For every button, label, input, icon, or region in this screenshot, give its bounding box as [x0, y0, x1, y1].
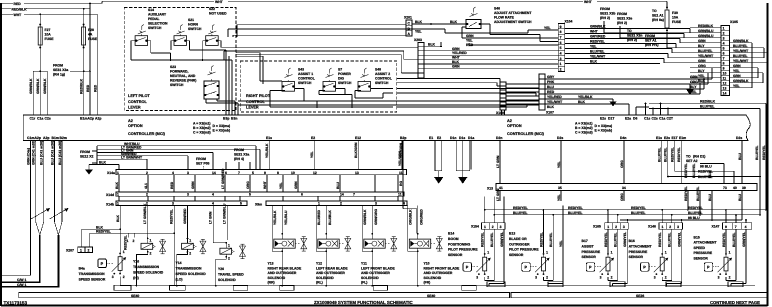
svg-text:YEL/BLU: YEL/BLU [284, 210, 288, 225]
svg-text:2: 2 [228, 256, 230, 260]
svg-text:11: 11 [399, 171, 403, 175]
sensor B15 attachment speed pressure [694, 209, 747, 286]
svg-text:3: 3 [677, 225, 679, 229]
wires left pilot switch tops to X201 [228, 25, 445, 37]
svg-text:YEL: YEL [415, 30, 422, 34]
svg-text:BLU: BLU [336, 181, 340, 189]
X9m right feed to FR solenoid [403, 209, 417, 234]
svg-text:RIGHT FRONT BLADE: RIGHT FRONT BLADE [424, 266, 461, 270]
svg-text:D4n: D4n [620, 136, 626, 140]
svg-text:Y14: Y14 [176, 261, 182, 265]
svg-text:SE7 P05: SE7 P05 [196, 162, 209, 166]
svg-text:D6: D6 [633, 117, 637, 121]
svg-text:SPEED SOLENOID: SPEED SOLENOID [133, 271, 164, 275]
RED/YEL sensor bus [485, 206, 767, 211]
svg-text:4: 4 [403, 202, 405, 206]
wire RED/BLK down [79, 78, 83, 94]
svg-text:ZX1009049 SYSTEM FUNCTIONAL SC: ZX1009049 SYSTEM FUNCTIONAL SCHEMATIC [314, 300, 413, 305]
svg-text:BLU/RED: BLU/RED [317, 209, 321, 225]
svg-text:SE40: SE40 [131, 294, 139, 298]
svg-text:11: 11 [723, 77, 727, 81]
wire B2p YEL/GRN down left of grounds [398, 141, 471, 170]
svg-text:SOLENOID: SOLENOID [361, 276, 379, 280]
svg-text:5: 5 [252, 171, 254, 175]
connector bar X13 [487, 184, 757, 191]
svg-text:RED/YEL: RED/YEL [124, 235, 128, 250]
svg-text:9: 9 [560, 25, 562, 29]
svg-text:6: 6 [225, 171, 227, 175]
svg-text:BLU/YEL: BLU/YEL [700, 105, 715, 109]
svg-text:E2s: E2s [664, 136, 670, 140]
svg-text:1: 1 [117, 202, 119, 206]
svg-text:X207: X207 [66, 249, 74, 253]
switch S7 power dig [323, 68, 352, 92]
svg-text:RED: RED [170, 181, 174, 189]
X105 left wires and labels [604, 21, 721, 83]
svg-text:E2: E2 [311, 136, 315, 140]
wires X14a to X14d drops with labels [115, 168, 398, 192]
svg-text:E1: E1 [429, 136, 433, 140]
svg-text:B16: B16 [629, 239, 635, 243]
svg-text:35: 35 [558, 186, 562, 190]
svg-text:GRN/BLK: GRN/BLK [733, 39, 749, 43]
svg-text:ORG: ORG [246, 181, 250, 189]
svg-text:4A: 4A [88, 33, 93, 37]
svg-text:PRESSURE: PRESSURE [694, 251, 713, 255]
svg-text:7: 7 [238, 171, 240, 175]
98 BLU wire [620, 216, 742, 221]
svg-text:(RR): (RR) [268, 281, 275, 285]
switch S43 assist 1 [282, 68, 315, 92]
svg-text:YEL/WHT: YEL/WHT [698, 54, 714, 58]
svg-text:RED/YEL: RED/YEL [684, 163, 688, 178]
svg-text:BLADE OR: BLADE OR [509, 237, 527, 241]
svg-text:BLK: BLK [547, 105, 555, 109]
svg-text:(RH 1g): (RH 1g) [53, 73, 65, 77]
svg-text:GRN: GRN [698, 39, 706, 43]
lower bus bundle from pilot levers to X105 [238, 79, 539, 108]
svg-text:S23: S23 [170, 65, 176, 69]
svg-text:2: 2 [146, 171, 148, 175]
svg-text:A2p: A2p [95, 117, 101, 121]
svg-text:LEFT PILOT: LEFT PILOT [128, 94, 150, 98]
svg-text:12: 12 [313, 171, 317, 175]
svg-text:YEL/BLK: YEL/BLK [578, 95, 593, 99]
svg-text:4: 4 [212, 202, 214, 206]
svg-text:1: 1 [484, 225, 486, 229]
svg-text:LT GRN: LT GRN [496, 188, 500, 201]
svg-text:RED: RED [547, 90, 555, 94]
svg-text:10A: 10A [45, 33, 52, 37]
svg-text:BLU/YEL: BLU/YEL [631, 211, 646, 215]
svg-text:B15: B15 [694, 236, 700, 240]
svg-text:2: 2 [492, 225, 494, 229]
svg-text:SPEED SENSOR: SPEED SENSOR [79, 278, 106, 282]
svg-text:BLU/YEL: BLU/YEL [696, 186, 700, 201]
svg-text:SWITCH: SWITCH [148, 26, 162, 30]
svg-text:GRN/BLK: GRN/BLK [29, 78, 33, 94]
svg-text:RED/YEL: RED/YEL [539, 232, 543, 247]
svg-text:FROM: FROM [234, 148, 244, 152]
svg-text:BLU (C41 m20): BLU (C41 m20) [40, 141, 44, 165]
svg-text:C = X3(m3): C = X3(m3) [193, 131, 211, 135]
svg-text:PNK: PNK [547, 80, 555, 84]
svg-text:SENSOR: SENSOR [629, 255, 644, 259]
svg-text:RED/YEL: RED/YEL [762, 145, 766, 160]
connector X109 [496, 82, 506, 115]
svg-text:CONTROLLER (MCI): CONTROLLER (MCI) [507, 132, 545, 136]
svg-text:BLK: BLK [115, 181, 119, 189]
svg-text:5: 5 [560, 46, 562, 50]
svg-text:YEL: YEL [590, 45, 597, 49]
wire E1s drop to X14a [265, 141, 269, 170]
svg-text:1: 1 [228, 244, 230, 248]
svg-text:SWITCH: SWITCH [375, 81, 389, 85]
svg-text:YEL: YEL [466, 39, 473, 43]
svg-text:AND OUTRIGGER: AND OUTRIGGER [316, 271, 345, 275]
svg-text:SWITCH: SWITCH [298, 81, 312, 85]
svg-text:C1s: C1s [644, 117, 650, 121]
svg-text:F27: F27 [45, 28, 51, 32]
svg-text:X201: X201 [404, 16, 412, 20]
svg-text:SE12 X2: SE12 X2 [80, 155, 93, 159]
svg-text:TX1173153: TX1173153 [4, 301, 28, 306]
svg-text:GRN/ORG: GRN/ORG [374, 208, 378, 225]
svg-text:(HI): (HI) [133, 276, 139, 280]
svg-text:LEVER: LEVER [128, 106, 141, 110]
svg-text:RG: RG [399, 181, 403, 186]
connector X165 [593, 223, 628, 230]
svg-text:1: 1 [150, 239, 152, 243]
svg-text:FUSE: FUSE [45, 37, 55, 41]
option controller box A2 (left of wavy edge) [23, 115, 750, 141]
svg-text:C2s: C2s [45, 117, 51, 121]
svg-text:1: 1 [560, 62, 562, 66]
svg-text:BLU: BLU [708, 193, 712, 201]
svg-text:RED/BLK: RED/BLK [700, 99, 716, 103]
svg-text:BLK: BLK [698, 79, 706, 83]
connector X207 [66, 247, 92, 253]
svg-text:NEUTRAL, AND: NEUTRAL, AND [170, 74, 196, 78]
svg-text:D1a: D1a [468, 136, 474, 140]
svg-text:TO: TO [686, 155, 691, 159]
svg-text:GRN: GRN [698, 59, 706, 63]
svg-text:1: 1 [189, 239, 191, 243]
svg-text:FUSE: FUSE [672, 20, 682, 24]
svg-text:Y13: Y13 [268, 262, 274, 266]
svg-text:CONTINUED NEXT PAGE: CONTINUED NEXT PAGE [710, 300, 760, 305]
svg-text:X107: X107 [546, 111, 554, 115]
svg-text:FROM: FROM [600, 7, 610, 11]
svg-text:TO: TO [652, 9, 657, 13]
note FROM SE12 X2 with harness fan [80, 142, 260, 170]
svg-text:D1T: D1T [608, 117, 615, 121]
note FROM SE31 X3b (RH 2) [600, 7, 615, 20]
svg-text:PRESSURE: PRESSURE [582, 250, 601, 254]
svg-text:(RL): (RL) [316, 281, 323, 285]
svg-text:E1s: E1s [656, 136, 662, 140]
svg-text:X146: X146 [648, 225, 656, 229]
svg-text:ASSIST: ASSIST [582, 244, 595, 248]
svg-text:B13: B13 [509, 232, 515, 236]
svg-text:BLY: BLY [690, 85, 697, 89]
svg-text:11: 11 [398, 193, 402, 197]
svg-text:4: 4 [723, 42, 725, 46]
note FROM SE31 X3e (RH 2) [617, 12, 632, 25]
svg-text:A2p: A2p [35, 136, 41, 140]
right pilot internal wiring [270, 89, 393, 108]
svg-text:B3p: B3p [223, 117, 229, 121]
svg-text:BLU/BLK: BLU/BLK [328, 210, 332, 225]
svg-text:WHT: WHT [452, 56, 461, 60]
svg-text:1: 1 [117, 171, 119, 175]
svg-text:D2s: D2s [736, 136, 742, 140]
svg-text:SWITCH: SWITCH [338, 81, 352, 85]
svg-text:OUTRIGGER: OUTRIGGER [509, 242, 530, 246]
svg-text:BLU: BLU [547, 85, 555, 89]
switch S46 adjust attachment flow rate [466, 7, 532, 29]
svg-text:(FR): (FR) [424, 281, 431, 285]
double solenoid Y12 left rear blade (RL) [316, 206, 351, 287]
svg-text:(LO): (LO) [176, 278, 183, 282]
svg-text:GRN: GRN [466, 34, 474, 38]
svg-text:BLU/YEL: BLU/YEL [614, 232, 618, 247]
svg-text:GRN/YEL: GRN/YEL [500, 232, 504, 247]
svg-text:BLK: BLK [450, 20, 458, 24]
svg-text:RED/YEL: RED/YEL [684, 186, 688, 201]
svg-text:S22: S22 [209, 7, 215, 11]
switch S23 FNR [170, 65, 219, 99]
svg-text:10: 10 [723, 72, 727, 76]
svg-text:ORG: ORG [620, 193, 624, 201]
svg-text:SOLENOID: SOLENOID [268, 276, 286, 280]
svg-text:X105: X105 [730, 20, 738, 24]
svg-text:10A: 10A [672, 16, 679, 20]
svg-text:B1m: B1m [80, 117, 87, 121]
svg-text:YEL: YEL [698, 74, 705, 78]
svg-text:8: 8 [723, 62, 725, 66]
sensor B13 blade or outrigger [509, 206, 563, 286]
svg-text:GRN/BLU: GRN/BLU [698, 29, 714, 33]
svg-text:2: 2 [723, 32, 725, 36]
connector X154 [471, 223, 505, 230]
svg-text:7: 7 [353, 193, 355, 197]
svg-text:ORG/RED: ORG/RED [419, 209, 423, 225]
svg-text:RED/YEL: RED/YEL [590, 40, 605, 44]
svg-text:GRN: GRN [191, 181, 195, 189]
svg-text:YEL: YEL [544, 26, 551, 30]
svg-text:SE31 X3b: SE31 X3b [600, 12, 615, 16]
svg-text:ADJUSTMENT SWITCH: ADJUSTMENT SWITCH [494, 20, 532, 24]
ground below FROM SE12 [85, 165, 97, 175]
svg-text:3: 3 [172, 202, 174, 206]
svg-text:SOLENOID: SOLENOID [316, 276, 334, 280]
solenoid Y15 transmission speed (LO) [176, 206, 207, 287]
svg-text:BOOM: BOOM [448, 237, 459, 241]
svg-text:E12: E12 [355, 136, 361, 140]
svg-text:AUXILIARY: AUXILIARY [148, 13, 167, 17]
svg-text:X147: X147 [712, 225, 720, 229]
svg-text:YEL/BLK: YEL/BLK [273, 210, 277, 225]
svg-text:WHT: WHT [584, 0, 593, 4]
svg-text:RED/BLK: RED/BLK [12, 7, 28, 11]
grounds below controller D1 pins [434, 141, 443, 184]
svg-text:Y11: Y11 [361, 262, 367, 266]
svg-text:BLU/YEL: BLU/YEL [549, 232, 553, 247]
svg-text:TO: TO [627, 29, 632, 33]
svg-text:POWER: POWER [338, 72, 351, 76]
svg-text:E1s: E1s [266, 136, 272, 140]
svg-text:BLK: BLK [428, 42, 436, 46]
svg-text:C/W 1: C/W 1 [17, 278, 27, 282]
svg-text:YEL: YEL [559, 240, 563, 247]
svg-text:FROM: FROM [53, 64, 63, 68]
svg-text:7: 7 [723, 57, 725, 61]
svg-text:S43: S43 [298, 68, 304, 72]
svg-text:PILOT PRESSURE: PILOT PRESSURE [509, 248, 539, 252]
svg-text:ORG: ORG [620, 160, 624, 168]
top power bus RED [1, 0, 667, 6]
wires down into X13 right pins [684, 141, 742, 184]
svg-text:9: 9 [725, 225, 727, 229]
svg-text:1: 1 [318, 202, 320, 206]
svg-text:REVERSE (FNR): REVERSE (FNR) [170, 79, 196, 83]
svg-text:YEL: YEL [733, 69, 740, 73]
svg-text:DIG: DIG [338, 77, 344, 81]
svg-text:LT GRN/BLK: LT GRN/BLK [143, 203, 147, 224]
svg-text:GRN: GRN [452, 47, 460, 51]
svg-text:14: 14 [723, 92, 727, 96]
svg-text:LEFT REAR BLADE: LEFT REAR BLADE [316, 266, 348, 270]
svg-text:RED/YEL: RED/YEL [688, 206, 703, 210]
svg-text:SE31 X3e: SE31 X3e [617, 17, 632, 21]
sensor B16 attachment pressure [629, 209, 683, 286]
ground below X105 [686, 84, 700, 95]
svg-text:RED/YEL: RED/YEL [670, 147, 674, 162]
svg-text:YEL: YEL [733, 84, 740, 88]
svg-text:3: 3 [560, 57, 562, 61]
svg-text:RED/YEL: RED/YEL [568, 206, 583, 210]
wire YEL from X201 [412, 26, 558, 34]
svg-text:SE7 A1: SE7 A1 [645, 39, 657, 43]
svg-text:E = X3(mb): E = X3(mb) [213, 129, 231, 133]
connector bar X14a [107, 170, 407, 176]
switch not used [206, 7, 227, 45]
svg-text:F30: F30 [672, 11, 678, 15]
svg-text:GRN (C4a): GRN (C4a) [26, 148, 30, 165]
SE40 harness bar left [19, 293, 510, 298]
svg-text:BLY: BLY [698, 44, 705, 48]
svg-text:3: 3 [187, 171, 189, 175]
svg-text:FROM: FROM [617, 12, 627, 16]
svg-text:LT GRN/RED: LT GRN/RED [221, 168, 225, 189]
svg-text:C2T: C2T [667, 117, 674, 121]
svg-text:TRAVEL SPEED: TRAVEL SPEED [218, 272, 244, 276]
svg-text:1: 1 [80, 249, 82, 253]
svg-text:B3n: B3n [231, 117, 237, 121]
svg-text:GRN/BLU: GRN/BLU [698, 34, 714, 38]
svg-text:SE31 X3n: SE31 X3n [627, 34, 642, 38]
svg-text:SWITCH: SWITCH [170, 83, 184, 87]
svg-text:BLU/YEL: BLU/YEL [513, 211, 528, 215]
svg-text:6: 6 [723, 52, 725, 56]
svg-text:E2a: E2a [625, 117, 631, 121]
svg-text:X14a: X14a [107, 171, 115, 175]
svg-text:5: 5 [249, 193, 251, 197]
svg-text:BLK: BLK [578, 100, 586, 104]
svg-text:BLK/GRN: BLK/GRN [354, 142, 358, 158]
svg-text:RED/YEL: RED/YEL [513, 206, 528, 210]
svg-text:SE40: SE40 [427, 294, 435, 298]
wires X14d to X14b short drops [119, 196, 398, 201]
svg-text:E2s: E2s [600, 117, 606, 121]
svg-text:SE1 A1: SE1 A1 [652, 14, 664, 18]
svg-text:LEFT FRONT BLADE: LEFT FRONT BLADE [361, 266, 395, 270]
svg-text:B2m: B2m [60, 136, 67, 140]
svg-text:B4a: B4a [79, 267, 85, 271]
svg-text:RED/BLK: RED/BLK [79, 78, 83, 94]
svg-text:GRN/BLK: GRN/BLK [733, 79, 749, 83]
svg-text:1: 1 [117, 193, 119, 197]
controller top pin labels [30, 117, 674, 121]
svg-text:(RH 2): (RH 2) [627, 38, 637, 42]
svg-text:TRANSMISSION: TRANSMISSION [79, 272, 106, 276]
connector X105 [721, 20, 738, 96]
svg-text:YEL/RED: YEL/RED [547, 95, 562, 99]
svg-text:YEL: YEL [557, 194, 561, 201]
svg-text:SE26: SE26 [636, 294, 644, 298]
svg-text:C1r: C1r [30, 117, 36, 121]
wires X107 right to X105 [545, 68, 721, 115]
svg-text:6: 6 [560, 41, 562, 45]
svg-text:BLU/YEL: BLU/YEL [733, 54, 748, 58]
svg-text:RED/YEL: RED/YEL [658, 232, 662, 247]
svg-text:13: 13 [355, 171, 359, 175]
svg-text:YEL/WHT: YEL/WHT [547, 100, 563, 104]
svg-text:BLK: BLK [99, 161, 107, 165]
svg-text:S7: S7 [338, 68, 342, 72]
svg-text:TRANSMISSION: TRANSMISSION [176, 267, 203, 271]
svg-text:98 BLU: 98 BLU [688, 216, 700, 220]
svg-text:POSITIONING: POSITIONING [448, 242, 471, 246]
sensor B14 boom positioning [448, 197, 504, 286]
wire GRN/BLK group to controller [29, 70, 47, 115]
svg-text:(RH 4): (RH 4) [234, 157, 244, 161]
wire E2 drop to X14a [310, 141, 314, 170]
svg-text:BLU/YEL: BLU/YEL [664, 147, 668, 162]
svg-text:BLU/YEL: BLU/YEL [590, 50, 605, 54]
svg-text:RED: RED [86, 84, 90, 92]
svg-text:BLU/YEL: BLU/YEL [733, 44, 748, 48]
connector bar X9m [255, 201, 407, 206]
common return wire bottom [120, 285, 755, 287]
svg-text:GRN/YEL: GRN/YEL [623, 232, 627, 247]
svg-text:SENSOR: SENSOR [448, 253, 463, 257]
svg-text:2: 2 [615, 225, 617, 229]
svg-text:BLU/YEL: BLU/YEL [568, 211, 583, 215]
svg-text:1: 1 [662, 225, 664, 229]
svg-text:D1s: D1s [459, 136, 465, 140]
svg-text:BLU/YEL: BLU/YEL [668, 232, 672, 247]
svg-text:5: 5 [240, 202, 242, 206]
BLU/YEL sensor bus [494, 211, 760, 216]
svg-text:RIGHT PILOT: RIGHT PILOT [246, 94, 271, 98]
connector X147 [712, 223, 752, 230]
svg-text:LEVER: LEVER [246, 106, 259, 110]
svg-text:39: 39 [742, 186, 746, 190]
svg-text:SE31 X3a: SE31 X3a [53, 68, 68, 72]
wires controller E pins bundle down to X13 [658, 141, 682, 184]
